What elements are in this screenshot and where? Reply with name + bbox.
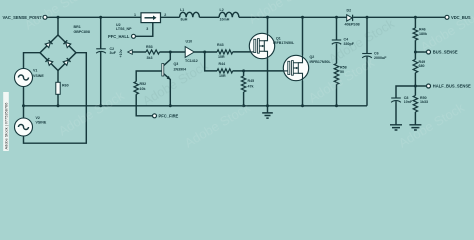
resistor R43 10R (horizontal) <box>217 50 233 54</box>
junction U10 output <box>203 51 206 54</box>
node BUS_SENSE junction <box>414 51 417 54</box>
ground under R50 <box>409 125 421 130</box>
resistor R50 1k33 (vertical) <box>413 96 417 112</box>
wire Q2 drain <box>302 17 304 55</box>
wire Q3 collector <box>164 52 171 66</box>
terminal VAC_SENSE_POINT <box>43 15 47 19</box>
inductor L1 8uH <box>180 12 200 17</box>
resistor R60 (box style) <box>56 82 60 94</box>
junction Q1 drain / top bus <box>266 16 269 19</box>
svg-text:2: 2 <box>164 13 166 17</box>
svg-text:R52: R52 <box>140 82 147 86</box>
svg-text:2000uF: 2000uF <box>374 56 387 60</box>
svg-text:IRFB17N50L: IRFB17N50L <box>310 60 332 64</box>
resistor R45 47k (vertical) <box>241 76 245 92</box>
capacitor C6 2000uF <box>362 53 372 55</box>
terminal BUS_SENSE <box>427 50 431 54</box>
node HALF_BUS_SENSE junction <box>414 85 417 88</box>
svg-text:R44: R44 <box>219 62 226 66</box>
svg-text:47k: 47k <box>248 85 254 89</box>
transistor Q3 2N3904 <box>162 64 164 77</box>
junction C6 / top bus <box>366 16 369 19</box>
junction R45 / bottom bus <box>242 104 245 107</box>
resistor R53 3k3 (horizontal) <box>146 50 160 54</box>
source V1 VSINE <box>15 69 33 87</box>
svg-text:V1: V1 <box>33 69 37 73</box>
junction V1-V2 / bottom bus <box>22 104 25 107</box>
junction Q2 source / bottom bus <box>301 104 304 107</box>
svg-text:Q3: Q3 <box>174 62 179 66</box>
svg-text:L1: L1 <box>180 8 184 12</box>
svg-text:R53: R53 <box>146 45 153 49</box>
svg-text:8uH: 8uH <box>181 18 188 22</box>
wire BUS_SENSE stub <box>415 51 426 53</box>
wire R60 to bus <box>57 94 59 106</box>
junction R44 / R45 <box>242 69 245 72</box>
svg-text:+10v: +10v <box>119 49 123 57</box>
svg-text:IRFB17N50L: IRFB17N50L <box>273 41 295 45</box>
svg-text:D2: D2 <box>347 9 352 13</box>
svg-text:10R: 10R <box>219 74 226 78</box>
junction Q3 emitter / bottom bus <box>169 104 172 107</box>
wire C6 vertical <box>366 17 368 106</box>
svg-text:BUS_SENSE: BUS_SENSE <box>433 50 458 55</box>
terminal PFC_FIRE <box>153 114 157 118</box>
svg-text:1: 1 <box>134 13 136 17</box>
svg-text:HALF_BUS_SENSE: HALF_BUS_SENSE <box>433 84 471 89</box>
bridge diode top-left <box>45 40 52 47</box>
junction C4 / top bus <box>335 16 338 19</box>
svg-text:40EPS08: 40EPS08 <box>345 23 360 27</box>
junction Q2 drain / top bus <box>301 16 304 19</box>
terminal VDC_BUS <box>445 15 449 19</box>
svg-text:10mH: 10mH <box>220 18 230 22</box>
wire HALF_BUS_SENSE stub <box>415 85 426 87</box>
svg-text:3uF: 3uF <box>110 51 117 55</box>
buffer U10 TC1412 <box>185 47 194 58</box>
svg-text:Q1: Q1 <box>276 36 281 40</box>
wire U10 out down to R44 <box>205 52 217 71</box>
svg-text:R60: R60 <box>62 84 69 88</box>
inductor L2 10mH <box>219 12 239 17</box>
junction R53 / Q3 collector <box>169 51 172 54</box>
svg-text:PFC_HALL: PFC_HALL <box>108 34 130 39</box>
svg-text:V2: V2 <box>36 116 40 120</box>
wire Q1 drain <box>267 17 269 33</box>
power flag +10v <box>128 50 133 55</box>
wire bridge left to V1 <box>24 53 41 69</box>
bridge diode top-right <box>63 40 70 47</box>
svg-text:VSINE: VSINE <box>33 74 44 78</box>
resistor R46 180k (vertical) <box>413 28 418 40</box>
wire R46 <box>414 17 416 52</box>
junction Q1 source / bottom bus <box>266 104 269 107</box>
wire Q3 base <box>136 71 162 82</box>
wire R49 <box>414 52 416 86</box>
wire Q1 ground stub <box>267 106 269 113</box>
ground under C8 <box>390 125 402 130</box>
wire C8 branch <box>396 86 415 125</box>
svg-text:680: 680 <box>419 64 425 68</box>
capacitor C8 10nF <box>391 97 401 99</box>
bridge diode bottom-left <box>45 58 52 65</box>
wire R52 to PFC_FIRE <box>136 94 153 116</box>
wire bridge right to V2 loop <box>24 53 87 144</box>
mosfet Q2 IRFB17N50L <box>283 55 308 80</box>
svg-text:U10: U10 <box>186 39 193 43</box>
svg-text:C6: C6 <box>374 52 379 56</box>
junction R60 / bottom bus <box>57 104 60 107</box>
bridge diode bottom-right <box>63 58 70 65</box>
svg-text:10k: 10k <box>140 87 146 91</box>
wire Q2 source <box>302 81 304 106</box>
wire R50 branch <box>414 86 416 125</box>
wire C4 R58 chain <box>336 17 338 106</box>
svg-text:L2: L2 <box>220 8 224 12</box>
resistor R49 680 (vertical) <box>413 59 418 72</box>
wire U2 pin3 to PFC_HALL <box>135 23 153 37</box>
resistor R58 50 (vertical) <box>334 64 339 85</box>
wire R44 to Q2 gate <box>233 70 284 72</box>
svg-text:10R: 10R <box>218 55 225 59</box>
junction bridge top / top bus <box>57 16 60 19</box>
svg-text:10nF: 10nF <box>404 100 413 104</box>
wire +10v to R53 <box>132 51 146 53</box>
wire V2 top to bus <box>23 106 25 118</box>
junction R46 / top bus <box>414 16 417 19</box>
svg-text:Adobe Stock | #775358766: Adobe Stock | #775358766 <box>3 103 8 150</box>
terminal HALF_BUS_SENSE <box>427 84 431 88</box>
resistor R44 10R (horizontal) <box>217 69 233 73</box>
wire R45 junction to bus <box>243 71 245 106</box>
svg-text:3k3: 3k3 <box>147 56 153 60</box>
capacitor C2 3uF <box>96 48 106 50</box>
wire R53 to junction and U10 <box>160 51 186 53</box>
watermarks <box>22 0 474 151</box>
svg-text:Q2: Q2 <box>310 55 315 59</box>
junction C2 / top bus <box>99 16 102 19</box>
wire R43 to Q1 gate <box>233 51 251 53</box>
svg-text:3: 3 <box>146 27 148 31</box>
wire bridge top to bus <box>57 17 59 35</box>
junction R58 / bottom bus <box>335 104 338 107</box>
svg-text:R43: R43 <box>217 43 224 47</box>
wire C2 vertical <box>100 17 102 106</box>
capacitor C4 330pF <box>332 39 341 41</box>
svg-text:R45: R45 <box>248 79 255 83</box>
source V2 VSINE <box>15 118 33 136</box>
resistor R52 10k (vertical) <box>134 82 138 95</box>
bridge rectifier BR1 GBPC808 <box>40 35 76 71</box>
svg-text:180k: 180k <box>419 32 427 36</box>
wire U10 out <box>194 51 217 53</box>
junction C2 / bottom bus <box>99 104 102 107</box>
wire V1 bottom to bus <box>23 87 25 106</box>
mosfet Q1 IRFB17N50L <box>249 33 274 58</box>
svg-text:GBPC808: GBPC808 <box>74 30 90 34</box>
terminal PFC_HALL <box>132 34 136 38</box>
wire bottom bus <box>24 105 368 107</box>
wire bridge bottom to R60 <box>57 71 59 83</box>
wire Q1 source <box>267 59 269 106</box>
svg-text:VSINE: VSINE <box>36 120 47 124</box>
attribution strip <box>3 92 9 151</box>
wire top bus <box>47 16 446 18</box>
svg-text:BR1: BR1 <box>74 25 81 29</box>
ground under Q1 source <box>262 113 273 118</box>
wire Q3 emitter to bus <box>164 74 171 106</box>
svg-text:1k33: 1k33 <box>420 100 428 104</box>
svg-text:PFC_FIRE: PFC_FIRE <box>159 113 179 118</box>
svg-text:LTS6_NP: LTS6_NP <box>116 27 132 31</box>
current sensor U2 LTS6_NP box <box>141 13 161 23</box>
diode D2 40EPS08 <box>347 15 353 21</box>
